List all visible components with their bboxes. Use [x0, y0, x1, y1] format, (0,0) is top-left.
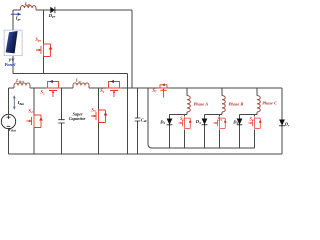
- svg-text:Lsc: Lsc: [75, 78, 82, 84]
- svg-text:S7: S7: [152, 89, 157, 94]
- svg-text:S3: S3: [91, 108, 96, 113]
- svg-text:Phase A: Phase A: [194, 101, 209, 106]
- svg-text:S4: S4: [28, 109, 33, 114]
- svg-text:IBat: IBat: [17, 100, 25, 106]
- svg-text:Dr: Dr: [284, 122, 290, 128]
- svg-text:Dpv: Dpv: [48, 13, 56, 19]
- svg-text:LBat: LBat: [15, 78, 25, 84]
- svg-text:Phase B: Phase B: [229, 101, 244, 106]
- svg-text:Lpv: Lpv: [24, 1, 32, 7]
- svg-text:S2: S2: [180, 117, 185, 122]
- svg-text:S3: S3: [218, 117, 223, 122]
- svg-text:D2: D2: [159, 119, 165, 125]
- svg-text:D4: D4: [232, 119, 238, 125]
- svg-text:Cdc: Cdc: [141, 117, 148, 123]
- svg-text:D3: D3: [195, 119, 201, 125]
- svg-text:Panel: Panel: [5, 62, 16, 67]
- svg-text:Spv: Spv: [35, 38, 41, 43]
- svg-text:VBat: VBat: [8, 127, 16, 133]
- svg-text:Ipv: Ipv: [15, 16, 21, 22]
- svg-text:S1: S1: [100, 89, 105, 94]
- svg-text:S2: S2: [40, 91, 45, 96]
- svg-text:Phase C: Phase C: [262, 101, 277, 106]
- svg-text:Capacitor: Capacitor: [69, 116, 86, 121]
- svg-text:S4: S4: [249, 117, 254, 122]
